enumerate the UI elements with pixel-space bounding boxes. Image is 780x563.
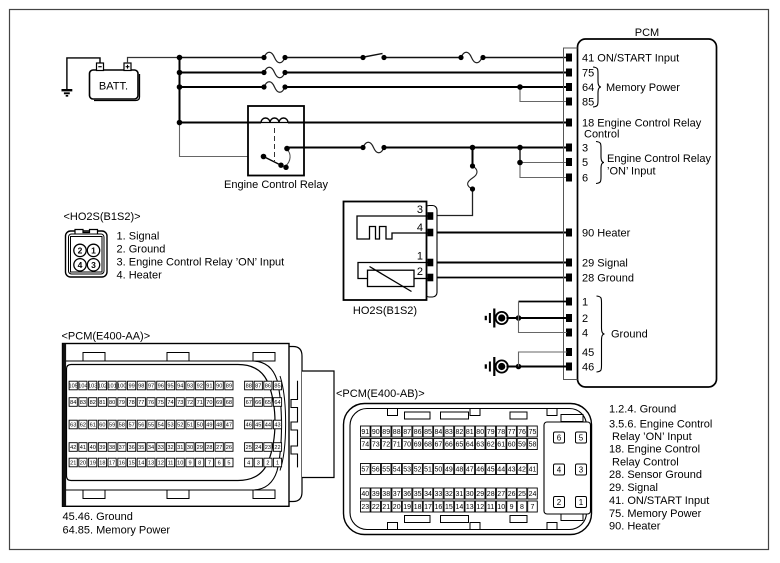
svg-text:36: 36 <box>403 491 411 498</box>
svg-text:2. Ground: 2. Ground <box>117 243 166 255</box>
E400-AA seal arc <box>280 376 286 471</box>
svg-text:5: 5 <box>227 461 230 467</box>
svg-text:7: 7 <box>208 461 211 467</box>
svg-text:84: 84 <box>435 429 443 436</box>
svg-text:4: 4 <box>417 222 423 234</box>
PCM pin terminals <box>566 54 572 371</box>
svg-text:67: 67 <box>246 400 252 406</box>
svg-text:95: 95 <box>167 384 173 390</box>
svg-text:88: 88 <box>393 429 401 436</box>
svg-text:81: 81 <box>99 400 105 406</box>
svg-text:79: 79 <box>487 429 495 436</box>
svg-text:1: 1 <box>276 461 279 467</box>
PCM pin labels <box>582 53 711 374</box>
svg-text:63: 63 <box>476 442 484 449</box>
svg-text:83: 83 <box>80 400 86 406</box>
svg-text:29 Signal: 29 Signal <box>582 258 628 270</box>
relay switch blade <box>264 157 282 166</box>
svg-text:15: 15 <box>445 504 453 511</box>
svg-text:25: 25 <box>518 491 526 498</box>
svg-text:18: 18 <box>99 461 105 467</box>
svg-text:’ON’ Input: ’ON’ Input <box>607 166 656 178</box>
svg-text:55: 55 <box>148 423 154 429</box>
svg-text:64: 64 <box>582 82 594 94</box>
svg-text:2: 2 <box>78 245 83 255</box>
svg-text:86: 86 <box>265 384 271 390</box>
E400-AB large pin block <box>544 422 591 514</box>
svg-text:68: 68 <box>424 442 432 449</box>
svg-text:90. Heater: 90. Heater <box>609 520 661 532</box>
svg-text:85: 85 <box>582 97 594 109</box>
svg-text:77: 77 <box>508 429 516 436</box>
svg-text:44: 44 <box>265 423 271 429</box>
svg-text:6: 6 <box>557 434 562 443</box>
svg-text:44: 44 <box>497 467 505 474</box>
relay switch travel arc <box>286 150 291 166</box>
E400-AB pin row 57-41 <box>361 464 538 475</box>
svg-text:72: 72 <box>187 400 193 406</box>
svg-text:4: 4 <box>247 461 250 467</box>
wire HO2S pin 2 to PCM 28 Ground <box>433 277 567 279</box>
E400-AA outer shell <box>63 344 290 507</box>
svg-text:20: 20 <box>393 504 401 511</box>
svg-text:10: 10 <box>177 461 183 467</box>
ground (battery negative) <box>62 90 73 96</box>
svg-text:82: 82 <box>456 429 464 436</box>
svg-text:3: 3 <box>417 204 423 216</box>
wire down to HO2S pin 3 <box>472 148 474 167</box>
HO2S pin list <box>117 230 285 281</box>
svg-text:3.5.6. Engine Control: 3.5.6. Engine Control <box>609 418 712 430</box>
svg-text:55: 55 <box>382 467 390 474</box>
E400-AA pin row 42-22 <box>69 443 282 452</box>
svg-text:53: 53 <box>403 467 411 474</box>
svg-text:86: 86 <box>414 429 422 436</box>
svg-text:39: 39 <box>99 445 105 451</box>
E400-AB pin row 23-7 <box>361 501 538 512</box>
svg-text:1.2.4. Ground: 1.2.4. Ground <box>609 403 676 415</box>
svg-text:18. Engine Control: 18. Engine Control <box>609 444 700 456</box>
svg-text:97: 97 <box>148 384 154 390</box>
svg-text:4: 4 <box>557 466 562 475</box>
svg-text:83: 83 <box>445 429 453 436</box>
svg-text:11: 11 <box>487 504 494 511</box>
fuse and switch terminal dots <box>261 55 485 192</box>
svg-text:79: 79 <box>119 400 125 406</box>
svg-text:29. Signal: 29. Signal <box>609 482 658 494</box>
svg-text:38: 38 <box>109 445 115 451</box>
svg-text:1: 1 <box>579 498 584 507</box>
PCM connector boundary line <box>564 48 578 380</box>
svg-text:4: 4 <box>582 328 588 340</box>
svg-text:105: 105 <box>69 384 78 390</box>
svg-text:62: 62 <box>487 442 495 449</box>
wire ground to pin 45 <box>519 352 568 367</box>
svg-text:21: 21 <box>382 504 390 511</box>
svg-text:2: 2 <box>417 266 423 278</box>
svg-text:<PCM(E400-AA)>: <PCM(E400-AA)> <box>62 331 151 343</box>
svg-text:37: 37 <box>119 445 125 451</box>
svg-text:33: 33 <box>158 445 164 451</box>
svg-text:70: 70 <box>403 442 411 449</box>
svg-text:46: 46 <box>246 423 252 429</box>
svg-text:66: 66 <box>255 400 261 406</box>
svg-text:18: 18 <box>414 504 422 511</box>
svg-text:64.85. Memory Power: 64.85. Memory Power <box>63 525 171 537</box>
svg-text:4: 4 <box>78 260 83 270</box>
svg-text:90: 90 <box>372 429 380 436</box>
svg-text:32: 32 <box>167 445 173 451</box>
E400-AA pin cavity <box>67 365 276 481</box>
svg-text:32: 32 <box>445 491 453 498</box>
connector E400-AB housing <box>344 404 592 535</box>
svg-text:33: 33 <box>435 491 443 498</box>
svg-text:34: 34 <box>148 445 154 451</box>
E400-AA pin row 105-85 <box>69 381 282 390</box>
svg-text:14: 14 <box>456 504 464 511</box>
bus wire vertical <box>179 58 181 124</box>
svg-text:54: 54 <box>158 423 164 429</box>
E400-AA pin row 84-64 <box>69 398 282 407</box>
svg-text:43: 43 <box>274 423 280 429</box>
svg-text:25: 25 <box>246 445 252 451</box>
svg-text:22: 22 <box>372 504 380 511</box>
svg-text:64: 64 <box>274 400 280 406</box>
svg-text:61: 61 <box>90 423 96 429</box>
sensor element <box>358 263 428 279</box>
svg-text:16: 16 <box>435 504 443 511</box>
fuse on wire 75 <box>264 67 285 78</box>
svg-text:63: 63 <box>70 423 76 429</box>
connector E400-AB pin grid <box>361 426 538 512</box>
svg-text:27: 27 <box>497 491 505 498</box>
relay coil <box>261 118 288 122</box>
svg-text:54: 54 <box>393 467 401 474</box>
svg-text:38: 38 <box>382 491 390 498</box>
svg-text:45: 45 <box>582 347 594 359</box>
HO2S pin numbers <box>417 204 423 278</box>
svg-text:31: 31 <box>456 491 464 498</box>
svg-text:2: 2 <box>266 461 269 467</box>
svg-text:50: 50 <box>435 467 443 474</box>
svg-text:62: 62 <box>80 423 86 429</box>
svg-text:40: 40 <box>90 445 96 451</box>
wire battery positive to bus <box>128 58 180 64</box>
svg-text:60: 60 <box>99 423 105 429</box>
svg-text:51: 51 <box>424 467 432 474</box>
svg-text:34: 34 <box>424 491 432 498</box>
svg-text:1: 1 <box>91 245 96 255</box>
svg-text:56: 56 <box>138 423 144 429</box>
inline connector wave on HO2S wire <box>468 166 477 189</box>
svg-text:87: 87 <box>403 429 411 436</box>
fuse on wire 41 (right) <box>461 52 482 63</box>
svg-text:9: 9 <box>188 461 191 467</box>
wire battery negative to ground <box>67 58 100 89</box>
svg-text:56: 56 <box>372 467 380 474</box>
svg-text:1. Signal: 1. Signal <box>117 230 160 242</box>
svg-text:19: 19 <box>90 461 96 467</box>
svg-text:90: 90 <box>216 384 222 390</box>
svg-text:78: 78 <box>497 429 505 436</box>
svg-text:3: 3 <box>257 461 260 467</box>
connector E400-AA housing <box>63 344 335 507</box>
svg-text:30: 30 <box>466 491 474 498</box>
svg-text:2: 2 <box>557 498 562 507</box>
svg-text:51: 51 <box>187 423 193 429</box>
svg-text:42: 42 <box>70 445 76 451</box>
svg-text:45: 45 <box>487 467 495 474</box>
E400-AA pin row 21-1 <box>69 458 282 467</box>
svg-text:47: 47 <box>226 423 232 429</box>
svg-text:52: 52 <box>177 423 183 429</box>
svg-text:35: 35 <box>414 491 422 498</box>
svg-text:12: 12 <box>476 504 484 511</box>
svg-text:49: 49 <box>445 467 453 474</box>
HO2S harness connector icon <box>66 230 108 278</box>
svg-text:102: 102 <box>98 384 107 390</box>
svg-text:29: 29 <box>197 445 203 451</box>
svg-text:65: 65 <box>265 400 271 406</box>
svg-text:Ground: Ground <box>611 329 648 341</box>
brace Ground <box>597 296 605 372</box>
svg-text:23: 23 <box>361 504 369 511</box>
svg-text:73: 73 <box>177 400 183 406</box>
svg-text:61: 61 <box>497 442 505 449</box>
wire HO2S pin 4 to PCM 90 Heater <box>433 232 567 234</box>
junction dots <box>177 55 523 370</box>
svg-text:89: 89 <box>382 429 390 436</box>
svg-text:28 Ground: 28 Ground <box>582 273 634 285</box>
HO2S(B1S2) sensor box <box>344 202 438 318</box>
svg-text:<HO2S(B1S2)>: <HO2S(B1S2)> <box>64 211 141 223</box>
svg-text:78: 78 <box>128 400 134 406</box>
E400-AA mounting wing <box>289 347 302 502</box>
svg-text:101: 101 <box>107 384 116 390</box>
svg-text:57: 57 <box>361 467 369 474</box>
svg-text:98: 98 <box>138 384 144 390</box>
ground G (pins 1,2,4) <box>486 309 508 328</box>
svg-text:5: 5 <box>582 157 588 169</box>
svg-text:13: 13 <box>466 504 474 511</box>
relay: Engine Control Relay <box>224 106 328 191</box>
svg-text:8: 8 <box>520 504 524 511</box>
svg-text:28: 28 <box>206 445 212 451</box>
svg-text:81: 81 <box>466 429 474 436</box>
svg-text:14: 14 <box>138 461 144 467</box>
svg-text:80: 80 <box>476 429 484 436</box>
svg-text:9: 9 <box>510 504 514 511</box>
svg-text:20: 20 <box>80 461 86 467</box>
svg-text:35: 35 <box>138 445 144 451</box>
svg-text:36: 36 <box>128 445 134 451</box>
svg-text:3. Engine Control Relay ’ON’ I: 3. Engine Control Relay ’ON’ Input <box>117 257 285 269</box>
svg-text:12: 12 <box>158 461 164 467</box>
svg-text:Engine Control Relay: Engine Control Relay <box>224 179 328 191</box>
ground G (pins 45,46) <box>486 357 508 376</box>
svg-text:47: 47 <box>466 467 474 474</box>
switch (ignition) on wire 41 <box>364 54 383 58</box>
svg-text:89: 89 <box>226 384 232 390</box>
svg-text:100: 100 <box>117 384 126 390</box>
svg-text:27: 27 <box>216 445 222 451</box>
svg-text:26: 26 <box>508 491 516 498</box>
svg-text:50: 50 <box>197 423 203 429</box>
svg-text:16: 16 <box>119 461 125 467</box>
svg-text:3: 3 <box>579 466 584 475</box>
wire ground to pin 1 <box>519 301 568 303</box>
svg-text:41: 41 <box>80 445 86 451</box>
svg-text:6: 6 <box>582 173 588 185</box>
svg-text:88: 88 <box>246 384 252 390</box>
svg-text:49: 49 <box>206 423 212 429</box>
svg-text:57: 57 <box>128 423 134 429</box>
svg-text:73: 73 <box>372 442 380 449</box>
svg-text:77: 77 <box>138 400 144 406</box>
svg-text:42: 42 <box>518 467 526 474</box>
svg-text:84: 84 <box>70 400 76 406</box>
E400-AB pin row 74-58 <box>361 439 538 450</box>
wire branch to pins 5 and 6 <box>519 148 521 163</box>
wire to pin 41 ON/START <box>180 57 568 59</box>
svg-text:10: 10 <box>497 504 505 511</box>
svg-text:85: 85 <box>274 384 280 390</box>
bus wire thin to relay switch <box>180 123 263 157</box>
wire branch to pin 85 <box>520 87 567 102</box>
relay actuator dashed link <box>274 128 276 161</box>
svg-text:Relay Control: Relay Control <box>612 456 679 468</box>
svg-text:11: 11 <box>168 461 174 467</box>
svg-text:<PCM(E400-AB)>: <PCM(E400-AB)> <box>336 388 425 400</box>
wire HO2S pin 1 to PCM 29 Signal <box>433 262 567 264</box>
svg-text:66: 66 <box>445 442 453 449</box>
svg-text:75: 75 <box>529 429 537 436</box>
svg-text:75: 75 <box>582 68 594 80</box>
svg-text:BATT.: BATT. <box>99 81 128 93</box>
svg-text:4. Heater: 4. Heater <box>117 270 163 282</box>
svg-text:75: 75 <box>158 400 164 406</box>
svg-text:PCM: PCM <box>635 27 659 39</box>
svg-text:8: 8 <box>198 461 201 467</box>
svg-text:67: 67 <box>435 442 443 449</box>
battery BATT. <box>90 63 140 101</box>
svg-text:92: 92 <box>197 384 203 390</box>
E400-AA latch tabs <box>83 353 275 499</box>
svg-text:23: 23 <box>265 445 271 451</box>
svg-text:39: 39 <box>372 491 380 498</box>
E400-AB pin row 91-75 <box>361 426 538 437</box>
svg-text:53: 53 <box>167 423 173 429</box>
svg-text:Engine Control Relay: Engine Control Relay <box>607 153 711 165</box>
svg-text:5: 5 <box>579 434 584 443</box>
svg-text:99: 99 <box>128 384 134 390</box>
svg-text:69: 69 <box>216 400 222 406</box>
wire to pin 18 relay coil <box>180 122 568 124</box>
svg-text:91: 91 <box>361 429 369 436</box>
E400-AA inner shell <box>66 361 282 490</box>
svg-text:13: 13 <box>148 461 154 467</box>
svg-text:45: 45 <box>255 423 261 429</box>
svg-text:80: 80 <box>109 400 115 406</box>
wire ground to pin 46 <box>507 366 568 368</box>
svg-text:93: 93 <box>187 384 193 390</box>
svg-text:Relay ’ON’ Input: Relay ’ON’ Input <box>612 431 692 443</box>
wire relay output to pin 3 <box>287 147 567 149</box>
E400-AB pinout notes <box>609 403 712 532</box>
svg-text:65: 65 <box>456 442 464 449</box>
svg-text:85: 85 <box>424 429 432 436</box>
svg-text:46: 46 <box>582 362 594 374</box>
svg-text:74: 74 <box>361 442 369 449</box>
svg-text:HO2S(B1S2): HO2S(B1S2) <box>353 305 417 317</box>
svg-text:74: 74 <box>167 400 173 406</box>
svg-text:3: 3 <box>91 260 96 270</box>
svg-text:30: 30 <box>187 445 193 451</box>
svg-text:28: 28 <box>487 491 495 498</box>
HO2S pin terminals <box>428 212 434 281</box>
svg-text:76: 76 <box>148 400 154 406</box>
svg-text:17: 17 <box>424 504 432 511</box>
svg-text:58: 58 <box>529 442 537 449</box>
PCM box <box>578 39 717 387</box>
svg-text:94: 94 <box>177 384 183 390</box>
svg-text:59: 59 <box>109 423 115 429</box>
svg-text:19: 19 <box>403 504 411 511</box>
heater element <box>357 216 428 239</box>
svg-text:24: 24 <box>255 445 261 451</box>
svg-text:75. Memory Power: 75. Memory Power <box>609 508 702 520</box>
svg-text:82: 82 <box>90 400 96 406</box>
svg-text:21: 21 <box>70 461 76 467</box>
svg-text:104: 104 <box>78 384 87 390</box>
svg-text:28. Sensor Ground: 28. Sensor Ground <box>609 469 702 481</box>
svg-text:68: 68 <box>226 400 232 406</box>
svg-text:Control: Control <box>584 129 619 141</box>
E400-AA pinout notes <box>63 511 171 537</box>
svg-text:15: 15 <box>128 461 134 467</box>
svg-text:70: 70 <box>206 400 212 406</box>
svg-text:64: 64 <box>466 442 474 449</box>
svg-text:76: 76 <box>518 429 526 436</box>
svg-text:91: 91 <box>206 384 212 390</box>
fuse on wire 41 (left) <box>264 52 285 63</box>
brace Memory Power <box>593 67 601 107</box>
E400-AA pin row 63-43 <box>69 420 282 429</box>
E400-AB pin row 40-24 <box>361 488 538 499</box>
svg-text:3: 3 <box>582 143 588 155</box>
wire to pin 75 <box>180 72 568 74</box>
svg-text:71: 71 <box>393 442 401 449</box>
svg-text:26: 26 <box>226 445 232 451</box>
svg-text:69: 69 <box>414 442 422 449</box>
svg-text:48: 48 <box>216 423 222 429</box>
svg-text:6: 6 <box>218 461 221 467</box>
svg-text:17: 17 <box>109 461 115 467</box>
svg-text:103: 103 <box>88 384 97 390</box>
E400-AA side plate <box>302 371 334 478</box>
svg-text:59: 59 <box>518 442 526 449</box>
svg-text:58: 58 <box>119 423 125 429</box>
svg-text:31: 31 <box>177 445 183 451</box>
svg-text:71: 71 <box>197 400 203 406</box>
svg-text:48: 48 <box>456 467 464 474</box>
svg-text:46: 46 <box>476 467 484 474</box>
svg-text:40: 40 <box>361 491 369 498</box>
brace Engine Control Relay ON Input <box>596 142 604 184</box>
svg-text:87: 87 <box>255 384 261 390</box>
fuse on relay output wire <box>363 142 384 153</box>
wire to pin 64 <box>180 86 568 88</box>
